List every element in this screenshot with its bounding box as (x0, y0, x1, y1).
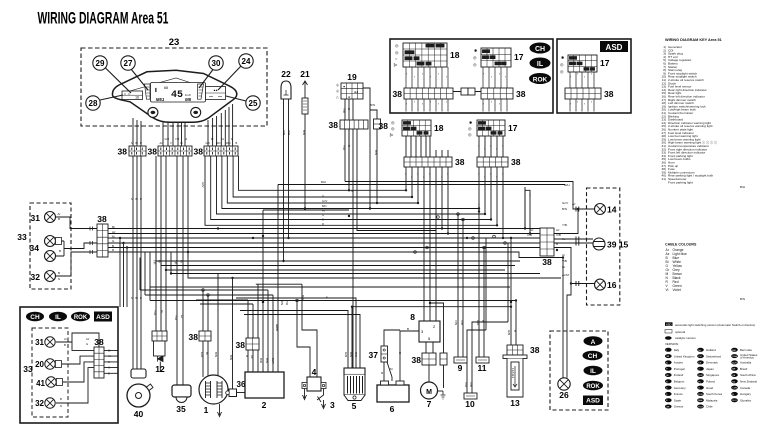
svg-text:›: › (484, 175, 485, 179)
dashboard right gauge (206, 87, 226, 100)
svg-text:V/B: V/B (562, 259, 567, 263)
dimmer switch 17 grid (ASD) (560, 55, 610, 88)
svg-text:Az: Az (112, 230, 116, 234)
svg-text:IL: IL (55, 314, 61, 321)
svg-text:R: R (140, 296, 142, 300)
indicator lamp 32 (bottom) (35, 398, 55, 408)
svg-text:Violet: Violet (673, 288, 681, 292)
wire colour labels (58, 212, 117, 281)
svg-text:›: › (438, 102, 439, 106)
svg-text:B/N: B/N (374, 150, 378, 155)
callout circle 27 (121, 56, 148, 90)
svg-text:›: › (411, 175, 412, 179)
svg-text:›: › (483, 72, 484, 76)
svg-text:G/N: G/N (507, 330, 511, 335)
svg-text:Az: Az (530, 228, 534, 232)
wire ignition 19 to 38D (345, 88, 377, 209)
svg-text:›: › (422, 72, 423, 76)
svg-text:◎: ◎ (391, 126, 395, 131)
svg-text:R: R (322, 222, 324, 226)
dashboard temp bar (198, 84, 204, 99)
svg-text:Az: Az (250, 355, 254, 359)
svg-text:VERSION:: VERSION: (665, 342, 679, 346)
svg-text:›: › (499, 72, 500, 76)
connector 38C under panel (194, 146, 238, 157)
svg-text:38: 38 (393, 89, 403, 99)
bulb 22 (281, 69, 291, 99)
svg-text:B: B (58, 271, 60, 275)
svg-text:B: B (513, 330, 517, 332)
connector 38L (vertical, rear) (540, 228, 554, 267)
svg-text:B/H: B/H (740, 185, 745, 189)
svg-text:B/N: B/N (562, 207, 567, 211)
svg-text:Belgium: Belgium (674, 380, 685, 384)
wire bulb 22 drops (284, 99, 289, 261)
svg-text:38: 38 (194, 147, 204, 157)
svg-text:Brazil: Brazil (740, 367, 748, 371)
svg-text:AUS: AUS (732, 361, 737, 364)
connector 38B under panel (148, 146, 192, 157)
rear light unit dashed box (587, 188, 620, 305)
svg-text:B/N: B/N (302, 130, 306, 135)
svg-text:Az: Az (572, 202, 576, 206)
svg-text:Az/N: Az/N (275, 324, 279, 331)
svg-text:19: 19 (347, 72, 357, 82)
svg-text:Az: Az (556, 228, 560, 232)
svg-text:17: 17 (508, 123, 518, 133)
badge ROK (529, 73, 551, 84)
versions dashed box bottom right (550, 331, 608, 410)
dashboard display text (135, 87, 218, 102)
CDI unit 2 (245, 372, 284, 410)
svg-text:2: 2 (262, 400, 267, 410)
svg-text:Ar: Ar (562, 253, 565, 257)
svg-text:Slovakia: Slovakia (740, 398, 751, 402)
svg-text:R: R (140, 141, 142, 145)
svg-text:Spain: Spain (674, 398, 682, 402)
legend: wiring diagram key (662, 38, 722, 184)
svg-text:of America: of America (740, 356, 754, 360)
svg-text:B: B (556, 242, 558, 246)
svg-text:›: › (430, 75, 431, 79)
svg-text:›: › (490, 172, 491, 176)
thermistor 21 (300, 69, 310, 114)
pick up 37 (369, 346, 388, 362)
svg-text:◎: ◎ (560, 69, 564, 74)
svg-text:38: 38 (455, 157, 465, 167)
wire 38B down to bulb 35 (177, 156, 183, 390)
svg-text:Y/R: Y/R (287, 130, 291, 136)
svg-text:CH: CH (588, 353, 598, 360)
wire 38D drops (345, 129, 436, 372)
wire relay 8 drops to 38K (426, 342, 433, 353)
svg-text:›: › (446, 100, 447, 104)
svg-text:8: 8 (410, 312, 415, 322)
svg-text:B/R: B/R (259, 358, 263, 364)
svg-text:Israel: Israel (706, 386, 713, 390)
dimmer switch 18 (main) (379, 120, 444, 137)
svg-text:›: › (570, 75, 571, 79)
connector 38 (ASD) (565, 88, 614, 112)
svg-text:B: B (112, 244, 114, 248)
wire stoplight 10 risers (467, 322, 508, 393)
wire to rear lamp 15 (554, 237, 593, 246)
connector 38D under ignition (329, 120, 368, 130)
wire 17-strip extra drops (503, 167, 530, 238)
svg-text:›: › (584, 75, 585, 79)
svg-text:›: › (430, 100, 431, 104)
svg-text:38: 38 (379, 121, 389, 131)
svg-text:›: › (406, 72, 407, 76)
svg-text:●●: ●● (213, 89, 217, 93)
svg-text:›: › (423, 175, 424, 179)
svg-text:B/N: B/N (216, 141, 220, 145)
svg-text:13A114: 13A114 (511, 368, 515, 378)
svg-text:catalytic version: catalytic version (675, 336, 696, 340)
svg-text:Front parking light: Front parking light (668, 180, 693, 184)
svg-text:B: B (347, 108, 351, 110)
svg-text:26: 26 (559, 390, 569, 400)
wire bottom box I out (104, 350, 118, 373)
connector 38H (vertical) (97, 214, 108, 257)
svg-text:Malaysia: Malaysia (706, 398, 718, 402)
diode 12 (152, 331, 167, 374)
dashboard fuel bar (145, 84, 151, 99)
svg-text:38: 38 (511, 157, 521, 167)
legend: cable colours (665, 243, 697, 293)
svg-text:38: 38 (542, 257, 552, 267)
svg-text:38: 38 (604, 89, 614, 99)
svg-text:B: B (108, 371, 110, 375)
svg-text:›: › (502, 144, 503, 148)
svg-text:Bermuda: Bermuda (740, 348, 752, 352)
svg-text:21: 21 (300, 69, 310, 79)
connector 38A under panel (118, 146, 146, 157)
svg-text:◎: ◎ (391, 120, 395, 125)
svg-text:38: 38 (148, 147, 158, 157)
svg-text:Finland: Finland (674, 373, 684, 377)
connector 38G (boxed right) (481, 88, 526, 112)
wire bus rows from connector 38H (108, 229, 563, 258)
svg-text:N: N (108, 360, 110, 364)
badge IL (530, 58, 551, 69)
wire bus top extension (278, 129, 578, 209)
svg-text:Portugal: Portugal (674, 367, 685, 371)
svg-text:›: › (414, 75, 415, 79)
svg-text:B/N: B/N (229, 355, 233, 360)
svg-text:B: B (58, 217, 60, 221)
svg-text:Vi: Vi (666, 288, 669, 292)
svg-text:88: 88 (164, 87, 168, 91)
svg-text:›: › (478, 172, 479, 176)
svg-text:GB: GB (666, 356, 670, 358)
svg-text:30: 30 (212, 59, 221, 68)
svg-text:›: › (491, 75, 492, 79)
svg-text:Gr/V: Gr/V (562, 201, 568, 205)
svg-text:›: › (405, 172, 406, 176)
svg-text:12: 12 (155, 364, 165, 374)
svg-text:B/N: B/N (214, 352, 218, 357)
svg-text:N: N (326, 296, 328, 300)
svg-text:Bi/H: Bi/H (564, 183, 570, 187)
svg-text:Singapore: Singapore (706, 373, 720, 377)
svg-text:USA: USA (732, 355, 737, 358)
svg-text:31: 31 (31, 213, 41, 223)
svg-text:›: › (499, 102, 500, 106)
svg-text:38: 38 (412, 355, 422, 365)
badge IL (versions) (584, 366, 603, 376)
wire dimmer 17 grid to strip (479, 136, 503, 157)
svg-text:G/R: G/R (200, 352, 204, 358)
svg-text:27: 27 (124, 59, 133, 68)
svg-text:New Zealand: New Zealand (740, 380, 757, 384)
svg-text:Y/R: Y/R (153, 310, 157, 316)
svg-text:V/R: V/R (464, 382, 468, 388)
generator 1 (199, 375, 228, 417)
connector 38I under 17 (477, 157, 521, 167)
spark plug 3 (317, 389, 335, 411)
ASD variant box (557, 39, 631, 113)
svg-text:B: B (236, 141, 238, 145)
wire 38B down to diode 12 (156, 156, 166, 331)
indicator lamp 31 (upper) (31, 212, 56, 224)
svg-text:M: M (231, 137, 233, 141)
svg-text:GR: GR (666, 407, 670, 409)
wire horn 36 lead (235, 392, 245, 394)
wire riser bends above CDI (140, 210, 516, 304)
svg-text:MAL: MAL (698, 399, 703, 402)
optional variant box CH IL ROK (390, 39, 553, 113)
svg-text:BR: BR (732, 369, 735, 371)
svg-text:V/B: V/B (527, 233, 532, 237)
svg-text:SLO: SLO (732, 400, 737, 402)
svg-text:N: N (131, 141, 133, 145)
svg-text:●: ● (343, 85, 345, 89)
svg-text:›: › (491, 100, 492, 104)
svg-text:V/B: V/B (556, 233, 561, 237)
svg-text:›: › (441, 175, 442, 179)
svg-text:G: G (86, 342, 88, 346)
svg-text:17: 17 (514, 52, 524, 62)
wire labels above panel strips (131, 137, 238, 300)
svg-text:Y/R: Y/R (174, 315, 178, 321)
svg-text:23: 23 (169, 37, 180, 48)
connector 38 above CDI (236, 338, 259, 350)
connector 38F (boxed left) (393, 88, 453, 112)
svg-text:Bi/R: Bi/R (271, 358, 275, 365)
svg-text:4: 4 (312, 367, 317, 377)
badge CH (530, 43, 551, 54)
svg-text:16: 16 (607, 280, 617, 290)
badge ASD (bottom) (94, 312, 112, 322)
svg-text:14: 14 (607, 205, 617, 215)
svg-text:›: › (447, 172, 448, 176)
svg-text:35: 35 (176, 404, 186, 414)
wire to rear lamp 14 (554, 207, 595, 234)
wire fuel sensor 13 risers (511, 238, 516, 345)
svg-text:DK: DK (698, 362, 702, 364)
svg-text:13: 13 (510, 398, 520, 408)
svg-text:G/V: G/V (206, 141, 211, 145)
starter motor 7 (421, 382, 446, 409)
wire verticals mid right (486, 187, 530, 330)
svg-text:CDN: CDN (732, 388, 737, 390)
svg-text:›: › (584, 102, 585, 106)
svg-text:R/N: R/N (226, 141, 231, 145)
connector 38H2 under 18 (404, 157, 465, 167)
svg-text:1: 1 (204, 405, 209, 415)
headlamp 20 (35, 359, 61, 369)
svg-text:›: › (417, 172, 418, 176)
svg-text:32: 32 (31, 272, 41, 282)
wire 18-strip drops (406, 167, 448, 321)
wire starter 7 ground lead (437, 390, 443, 392)
svg-text:29: 29 (96, 59, 105, 68)
svg-text:›: › (577, 72, 578, 76)
svg-text:Austria: Austria (674, 361, 683, 365)
dimmer switch 17 grid (boxed) (473, 48, 524, 88)
svg-text:B: B (59, 249, 61, 253)
svg-text:A: A (591, 339, 596, 346)
svg-text:›: › (502, 172, 503, 176)
svg-text:optional: optional (675, 330, 685, 334)
wire panel-right drops to connector 38C (208, 104, 233, 146)
dimmer switch 17 (main) (468, 120, 518, 137)
svg-text:◎: ◎ (468, 126, 472, 131)
svg-text:Gr: Gr (160, 310, 164, 313)
svg-text:38: 38 (189, 332, 199, 342)
svg-text:SGP: SGP (698, 375, 703, 377)
svg-text:United Kingdom: United Kingdom (674, 354, 695, 358)
dashed box 33 (bottom) (23, 328, 68, 417)
svg-text:Japan: Japan (706, 367, 714, 371)
badge IL (bottom) (49, 312, 67, 322)
wire CDI 2 risers (248, 185, 278, 373)
svg-text:●●: ●● (354, 90, 358, 94)
dashboard lower sockets (148, 107, 201, 117)
number plate light 26 (558, 378, 570, 400)
svg-text:32: 32 (35, 399, 44, 408)
wire panel-mid drops to connector 38B (163, 122, 185, 146)
rear stop switch 10 (464, 393, 477, 409)
svg-text:R/N: R/N (354, 352, 358, 357)
chevron pin glyphs (405, 72, 592, 179)
svg-text:◎: ◎ (395, 43, 399, 48)
svg-text:Y/B: Y/B (175, 137, 179, 141)
svg-text:ASD: ASD (96, 314, 110, 321)
svg-text:41: 41 (36, 379, 45, 388)
svg-text:18: 18 (135, 96, 139, 100)
svg-text:B/N: B/N (370, 103, 375, 107)
svg-text:7: 7 (427, 399, 432, 409)
svg-text:38: 38 (516, 89, 526, 99)
svg-text:G: G (108, 366, 110, 370)
fuel sensor 13 (503, 345, 540, 408)
start relay 8 (410, 312, 440, 342)
svg-text:Y/R: Y/R (342, 145, 346, 151)
svg-text:B/N: B/N (301, 295, 305, 300)
svg-text:B/N: B/N (740, 297, 745, 301)
svg-text:N: N (131, 197, 133, 201)
indicator lamp 32 (upper) (31, 271, 56, 283)
svg-text:◎: ◎ (473, 55, 477, 60)
wire lower bus rows (150, 261, 540, 287)
svg-text:Gr: Gr (562, 265, 565, 269)
svg-text:◎: ◎ (468, 132, 472, 137)
svg-text:Y/B: Y/B (562, 223, 567, 227)
wire battery leads (392, 331, 419, 381)
svg-text:›: › (570, 102, 571, 106)
svg-text:G/R: G/R (344, 352, 348, 358)
svg-text:Australia: Australia (740, 361, 752, 365)
dashboard left gauge (122, 91, 143, 100)
svg-text:N: N (131, 296, 133, 300)
svg-text:›: › (484, 147, 485, 151)
wire junction dots (119, 189, 579, 308)
wire thermistor 21 drop (304, 114, 306, 209)
svg-text:›: › (490, 144, 491, 148)
svg-text:›: › (591, 100, 592, 104)
badge ROK (versions) (583, 381, 603, 391)
svg-text:◎: ◎ (473, 62, 477, 67)
svg-text:›: › (438, 72, 439, 76)
wire HT coil 4 risers (297, 284, 317, 377)
connector 38K under relay (412, 353, 436, 365)
svg-text:Gr/V: Gr/V (322, 199, 328, 203)
svg-text:31: 31 (35, 338, 44, 347)
svg-text:Italy: Italy (674, 348, 680, 352)
svg-text:Bi: Bi (205, 352, 209, 355)
legend: variants (665, 322, 755, 346)
svg-text:N: N (58, 277, 60, 281)
wire junction rings (202, 213, 507, 302)
svg-text:25: 25 (249, 99, 258, 108)
dimmer switch 18 grid (boxed) (393, 43, 460, 88)
svg-text:›: › (446, 75, 447, 79)
svg-text:G/R: G/R (476, 320, 480, 326)
svg-text:›: › (591, 72, 592, 76)
connector pin marks under panel strips (132, 148, 235, 155)
svg-text:ROK: ROK (533, 76, 548, 83)
svg-text:M51: M51 (156, 97, 165, 102)
svg-text:Y/R: Y/R (285, 300, 289, 306)
svg-text:40: 40 (134, 409, 144, 419)
callout circle 24 (218, 54, 253, 90)
svg-text:B/N: B/N (265, 358, 269, 363)
svg-text:Holland: Holland (706, 348, 716, 352)
wire generator risers (203, 274, 233, 390)
svg-text:Bi: Bi (108, 348, 111, 352)
svg-text:V/N: V/N (454, 320, 458, 325)
svg-text:B/N: B/N (322, 204, 326, 208)
svg-text:B: B (347, 145, 351, 147)
svg-text:6: 6 (390, 404, 395, 414)
rear left indicator 16 (595, 279, 617, 290)
wire lamp 26 risers (562, 258, 564, 378)
svg-text:Gr: Gr (180, 141, 183, 145)
svg-text:34: 34 (30, 243, 40, 253)
horn 36 (226, 380, 246, 397)
svg-text:17: 17 (600, 58, 610, 68)
svg-text:Poland: Poland (706, 380, 715, 384)
svg-text:◎: ◎ (395, 50, 399, 55)
svg-text:9: 9 (458, 363, 463, 373)
svg-text:›: › (422, 102, 423, 106)
svg-text:›: › (478, 144, 479, 148)
svg-text:›: › (505, 75, 506, 79)
voltage regulator 5 (344, 368, 365, 411)
svg-text:37: 37 (369, 350, 379, 360)
